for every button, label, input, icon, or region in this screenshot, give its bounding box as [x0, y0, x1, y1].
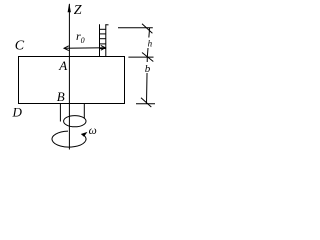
node bottom slash	[141, 98, 151, 107]
node small rotation loop	[64, 116, 86, 127]
node middle slash	[142, 53, 153, 62]
svg-text:b: b	[145, 63, 151, 75]
svg-text:B: B	[57, 89, 65, 104]
node top slash	[142, 24, 152, 33]
svg-text:A: A	[58, 58, 67, 73]
node shaft right wall	[83, 104, 85, 119]
svg-text:D: D	[12, 105, 23, 120]
node vessel rectangle	[19, 57, 125, 104]
svg-text:Z: Z	[74, 3, 82, 18]
wire Z axis vertical line	[68, 4, 70, 150]
svg-text:C: C	[15, 39, 25, 54]
wire dimension vertical line	[147, 28, 150, 104]
node piezometer tube	[100, 24, 109, 56]
node label b	[143, 62, 152, 73]
node rotation arrowhead	[81, 132, 88, 137]
node label h	[145, 38, 153, 49]
wire bottom tick line	[136, 103, 155, 105]
node Z axis arrowhead	[68, 3, 71, 12]
svg-text:ω: ω	[89, 125, 97, 137]
wire r0 dimension arrow	[64, 45, 105, 50]
wire top tick line	[118, 27, 153, 29]
svg-text:0: 0	[81, 36, 85, 45]
node large rotation arc	[52, 131, 86, 147]
node shaft left wall	[59, 104, 61, 122]
wire middle tick line	[128, 56, 153, 58]
svg-text:h: h	[148, 38, 153, 48]
